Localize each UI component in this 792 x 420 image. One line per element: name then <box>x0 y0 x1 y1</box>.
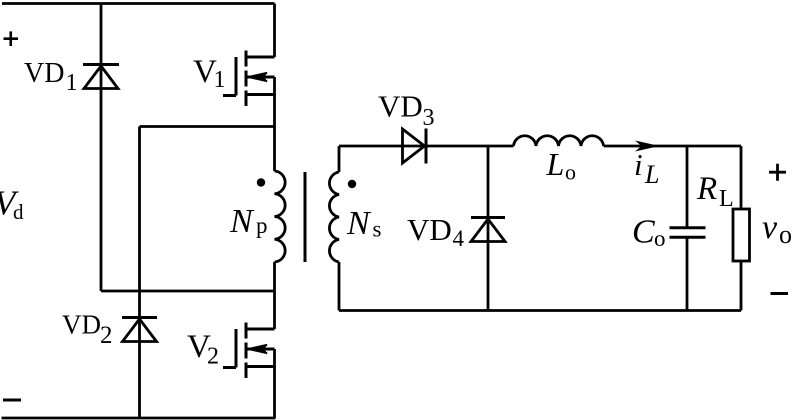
svg-text:L: L <box>546 146 565 182</box>
label - (input negative) <box>3 399 21 402</box>
wire top rail after Lo <box>604 145 742 148</box>
svg-text:N: N <box>229 203 255 240</box>
wire secondary top rail to Lo <box>339 145 514 148</box>
svg-text:2: 2 <box>100 322 113 349</box>
wire secondary bottom rail <box>339 309 741 312</box>
svg-text:R: R <box>696 171 717 207</box>
wire V2 source vertical to bottom rail <box>273 349 276 418</box>
svg-text:L: L <box>644 160 659 189</box>
svg-text:VD: VD <box>378 89 423 124</box>
svg-text:VD: VD <box>62 310 101 340</box>
diode VD4 branch wire <box>487 146 490 311</box>
svg-text:o: o <box>654 226 666 251</box>
transistor V1 (MOSFET) <box>223 51 275 107</box>
label - (output negative) <box>771 292 789 295</box>
svg-text:d: d <box>13 200 24 224</box>
inductor Lo <box>514 136 604 146</box>
secondary polarity dot <box>348 180 356 188</box>
wire secondary top vertical <box>338 146 341 172</box>
diode VD2 <box>122 318 157 342</box>
wire top rail (+Vd bus) <box>2 2 275 5</box>
resistor RL branch wire top <box>740 146 743 209</box>
svg-text:1: 1 <box>214 67 226 93</box>
wire bottom rail (-Vd bus) <box>2 417 276 420</box>
svg-text:o: o <box>779 220 792 249</box>
capacitor Co <box>670 228 706 238</box>
svg-text:i: i <box>634 147 643 182</box>
capacitor Co branch wire top <box>686 146 689 228</box>
wire VD1 branch vertical <box>100 4 103 292</box>
svg-text:p: p <box>256 213 268 238</box>
wire primary bottom vertical to V2 drain <box>273 262 276 329</box>
svg-text:2: 2 <box>207 344 219 370</box>
svg-text:L: L <box>719 186 734 212</box>
svg-text:VD: VD <box>407 212 452 247</box>
resistor RL <box>733 209 750 261</box>
svg-text:VD: VD <box>24 58 64 89</box>
svg-text:o: o <box>565 160 576 185</box>
wire secondary bottom vertical <box>338 262 341 311</box>
label + (output positive) <box>769 164 786 181</box>
transformer secondary winding Ns <box>329 172 339 262</box>
resistor RL branch wire bottom <box>740 261 743 311</box>
svg-text:s: s <box>373 217 382 242</box>
svg-text:v: v <box>762 209 778 246</box>
svg-text:4: 4 <box>453 226 465 251</box>
transistor V2 (MOSFET) <box>223 323 275 379</box>
label + (input positive) <box>4 31 19 46</box>
transformer primary winding Np <box>275 171 286 262</box>
svg-text:1: 1 <box>66 70 78 96</box>
diode VD3 <box>403 129 427 164</box>
wire V1 source vertical to primary top <box>273 77 276 171</box>
svg-text:3: 3 <box>423 105 435 131</box>
svg-text:N: N <box>346 205 372 242</box>
transformer core <box>304 172 307 262</box>
wire VD2 branch vertical <box>138 127 141 419</box>
wire V1 drain vertical <box>273 4 276 58</box>
wire inner horizontal (V1 source node to VD2 branch) <box>140 125 275 128</box>
arrow iL <box>635 141 660 152</box>
wire clamp horizontal (VD1 anode to primary bottom) <box>101 290 275 293</box>
primary polarity dot <box>257 178 265 186</box>
svg-text:C: C <box>632 214 655 251</box>
diode VD4 <box>471 218 505 242</box>
diode VD1 <box>83 65 119 89</box>
capacitor Co branch wire bottom <box>686 237 689 310</box>
